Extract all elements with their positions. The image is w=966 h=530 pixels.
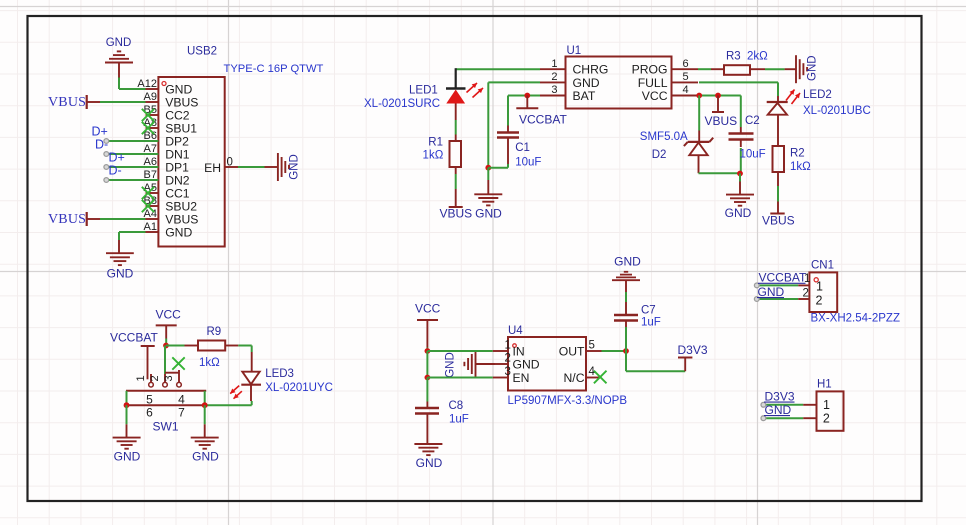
svg-text:GND: GND: [165, 82, 192, 96]
svg-text:LED1: LED1: [409, 85, 438, 97]
svg-text:SBU2: SBU2: [165, 199, 197, 213]
svg-text:R1: R1: [428, 137, 443, 149]
svg-text:5: 5: [589, 340, 595, 352]
svg-text:D+: D+: [109, 151, 125, 165]
svg-text:VCC: VCC: [415, 302, 441, 316]
svg-text:VBUS: VBUS: [165, 95, 198, 109]
svg-text:2: 2: [551, 71, 557, 83]
svg-text:EN: EN: [513, 371, 530, 385]
svg-text:VBUS: VBUS: [440, 206, 473, 220]
svg-text:6: 6: [683, 58, 689, 70]
svg-text:2: 2: [149, 375, 161, 381]
svg-text:1uF: 1uF: [449, 414, 469, 426]
svg-text:GND: GND: [107, 267, 134, 281]
svg-text:DN2: DN2: [165, 173, 190, 187]
svg-text:C1: C1: [515, 142, 530, 154]
svg-text:1kΩ: 1kΩ: [199, 357, 220, 369]
svg-text:D3V3: D3V3: [678, 343, 708, 357]
svg-text:6: 6: [146, 406, 153, 420]
svg-text:3: 3: [551, 84, 557, 96]
svg-text:10uF: 10uF: [740, 149, 766, 161]
svg-text:C8: C8: [449, 400, 464, 412]
svg-text:4: 4: [178, 393, 185, 407]
svg-text:EH: EH: [204, 161, 221, 175]
svg-text:GND: GND: [445, 352, 457, 378]
svg-text:CC2: CC2: [165, 108, 190, 122]
svg-text:GND: GND: [614, 255, 641, 269]
svg-text:LED2: LED2: [803, 89, 832, 101]
svg-text:R2: R2: [790, 148, 805, 160]
svg-text:DP2: DP2: [165, 134, 189, 148]
svg-text:IN: IN: [513, 344, 525, 358]
svg-text:3: 3: [163, 375, 175, 381]
svg-text:1: 1: [135, 375, 147, 381]
svg-text:2kΩ: 2kΩ: [747, 51, 768, 63]
svg-text:A9: A9: [144, 91, 157, 103]
svg-text:SW1: SW1: [152, 420, 178, 434]
svg-text:VCCBAT: VCCBAT: [519, 113, 567, 127]
svg-text:H1: H1: [817, 379, 832, 391]
svg-text:OUT: OUT: [559, 344, 585, 358]
svg-text:GND: GND: [513, 357, 540, 371]
svg-text:FULL: FULL: [638, 76, 668, 90]
svg-text:SBU1: SBU1: [165, 121, 197, 135]
svg-text:C7: C7: [641, 305, 656, 317]
svg-text:VCCBAT: VCCBAT: [110, 331, 158, 345]
svg-text:VBUS: VBUS: [762, 213, 795, 227]
svg-text:GND: GND: [192, 450, 219, 464]
svg-text:DN1: DN1: [165, 147, 190, 161]
svg-text:VBUS: VBUS: [48, 95, 86, 110]
svg-text:U4: U4: [508, 325, 523, 337]
svg-text:GND: GND: [114, 450, 141, 464]
svg-text:LP5907MFX-3.3/NOPB: LP5907MFX-3.3/NOPB: [508, 395, 628, 407]
svg-text:2: 2: [816, 294, 823, 308]
svg-text:D2: D2: [652, 149, 667, 161]
svg-text:A8: A8: [144, 117, 157, 129]
svg-text:GND: GND: [106, 37, 132, 49]
svg-text:USB2: USB2: [187, 46, 217, 58]
svg-text:3: 3: [505, 366, 511, 378]
svg-text:VBUS: VBUS: [165, 212, 198, 226]
svg-text:B5: B5: [144, 104, 157, 116]
svg-text:CN1: CN1: [811, 260, 834, 272]
svg-text:VCCBAT: VCCBAT: [759, 271, 807, 285]
svg-text:5: 5: [146, 393, 153, 407]
svg-text:2: 2: [803, 288, 809, 300]
svg-text:C2: C2: [745, 115, 760, 127]
svg-text:VCC: VCC: [156, 308, 182, 322]
svg-text:GND: GND: [758, 285, 785, 299]
svg-text:DP1: DP1: [165, 160, 189, 174]
svg-text:SMF5.0A: SMF5.0A: [640, 131, 688, 143]
svg-text:CHRG: CHRG: [573, 63, 609, 77]
svg-text:1kΩ: 1kΩ: [423, 150, 444, 162]
svg-text:1: 1: [551, 58, 557, 70]
svg-text:BAT: BAT: [573, 89, 596, 103]
svg-text:A4: A4: [144, 208, 157, 220]
svg-text:A5: A5: [144, 182, 157, 194]
svg-text:A1: A1: [144, 221, 157, 233]
svg-text:2: 2: [505, 353, 511, 365]
svg-text:R3: R3: [726, 51, 741, 63]
svg-text:GND: GND: [765, 403, 792, 417]
svg-text:D-: D-: [109, 164, 122, 178]
svg-text:10uF: 10uF: [515, 157, 541, 169]
svg-text:D-: D-: [95, 138, 108, 152]
svg-text:1: 1: [505, 340, 511, 352]
svg-text:GND: GND: [416, 456, 443, 470]
svg-text:1kΩ: 1kΩ: [790, 161, 811, 173]
svg-text:CC1: CC1: [165, 186, 190, 200]
svg-text:XL-0201UBC: XL-0201UBC: [803, 105, 871, 117]
svg-text:5: 5: [683, 71, 689, 83]
svg-text:GND: GND: [807, 55, 819, 81]
svg-text:LED3: LED3: [265, 368, 294, 380]
svg-text:VBUS: VBUS: [705, 114, 738, 128]
svg-text:U1: U1: [567, 45, 582, 57]
svg-text:VBUS: VBUS: [48, 212, 86, 227]
svg-text:7: 7: [178, 406, 185, 420]
svg-text:PROG: PROG: [632, 63, 668, 77]
svg-text:XL-0201UYC: XL-0201UYC: [265, 382, 333, 394]
svg-text:R9: R9: [207, 326, 222, 338]
svg-text:BX-XH2.54-2PZZ: BX-XH2.54-2PZZ: [811, 313, 900, 325]
svg-text:TYPE-C 16P QTWT: TYPE-C 16P QTWT: [224, 63, 324, 75]
svg-text:D3V3: D3V3: [765, 389, 795, 403]
svg-text:VCC: VCC: [642, 89, 668, 103]
svg-text:1: 1: [823, 398, 830, 412]
svg-text:1uF: 1uF: [641, 317, 661, 329]
svg-text:GND: GND: [573, 76, 600, 90]
svg-text:GND: GND: [475, 206, 502, 220]
svg-text:XL-0201SURC: XL-0201SURC: [364, 98, 440, 110]
svg-text:GND: GND: [725, 206, 752, 220]
svg-text:2: 2: [823, 411, 830, 425]
svg-text:1: 1: [804, 273, 810, 285]
svg-text:B8: B8: [144, 195, 157, 207]
svg-text:N/C: N/C: [564, 371, 585, 385]
svg-text:D+: D+: [92, 125, 108, 139]
svg-text:GND: GND: [165, 225, 192, 239]
svg-text:GND: GND: [289, 154, 301, 180]
svg-text:4: 4: [683, 84, 689, 96]
